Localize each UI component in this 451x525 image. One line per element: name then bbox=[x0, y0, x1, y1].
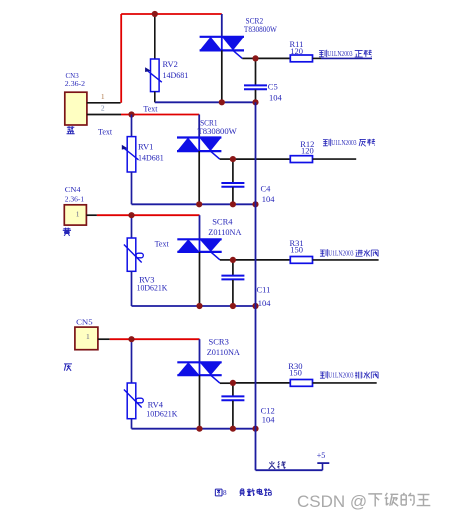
svg-text:Z0110NA: Z0110NA bbox=[207, 347, 241, 357]
svg-text:C11: C11 bbox=[257, 285, 271, 295]
svg-text:Text: Text bbox=[98, 128, 113, 137]
svg-text:U1LN2003: U1LN2003 bbox=[328, 249, 353, 258]
svg-text:104: 104 bbox=[269, 93, 283, 103]
svg-text:T830800W: T830800W bbox=[198, 126, 237, 136]
svg-text:U1LN2003: U1LN2003 bbox=[327, 49, 352, 58]
svg-text:10D621K: 10D621K bbox=[137, 283, 169, 293]
svg-text:1: 1 bbox=[101, 92, 105, 101]
svg-text:Text: Text bbox=[155, 240, 170, 249]
svg-text:C4: C4 bbox=[261, 184, 272, 194]
svg-text:1: 1 bbox=[86, 332, 90, 341]
svg-text:RV2: RV2 bbox=[163, 59, 178, 69]
svg-text:2.36-2: 2.36-2 bbox=[65, 79, 85, 88]
svg-text:C5: C5 bbox=[268, 82, 278, 92]
svg-text:104: 104 bbox=[258, 298, 272, 308]
svg-text:120: 120 bbox=[301, 146, 314, 156]
svg-text:2.36-1: 2.36-1 bbox=[65, 194, 84, 203]
svg-text:U1LN2003: U1LN2003 bbox=[328, 371, 353, 380]
svg-text:2: 2 bbox=[101, 103, 105, 112]
svg-text:U1LN2003: U1LN2003 bbox=[331, 138, 356, 147]
svg-text:Text: Text bbox=[143, 105, 158, 114]
svg-text:14D681: 14D681 bbox=[163, 70, 189, 80]
svg-text:CSDN @: CSDN @ bbox=[297, 492, 367, 511]
svg-text:120: 120 bbox=[290, 46, 303, 56]
svg-text:CN5: CN5 bbox=[76, 318, 93, 327]
svg-text:1: 1 bbox=[76, 210, 80, 219]
svg-text:SCR4: SCR4 bbox=[212, 216, 233, 226]
svg-text:10D621K: 10D621K bbox=[146, 409, 178, 419]
svg-text:104: 104 bbox=[262, 194, 276, 204]
svg-text:Z0110NA: Z0110NA bbox=[208, 227, 242, 237]
svg-text:+5: +5 bbox=[317, 451, 326, 460]
svg-text:8: 8 bbox=[223, 489, 227, 497]
svg-text:104: 104 bbox=[262, 415, 276, 425]
svg-text:SCR3: SCR3 bbox=[209, 337, 229, 347]
svg-text:RV1: RV1 bbox=[138, 142, 153, 152]
svg-text:150: 150 bbox=[289, 367, 302, 377]
svg-text:CN4: CN4 bbox=[65, 185, 81, 194]
svg-text:T830800W: T830800W bbox=[244, 24, 277, 34]
svg-text:14D681: 14D681 bbox=[138, 153, 164, 163]
svg-text:150: 150 bbox=[290, 245, 303, 255]
